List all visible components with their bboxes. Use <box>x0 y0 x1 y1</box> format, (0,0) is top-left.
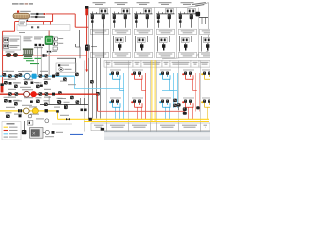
gauge label box 1 <box>104 61 112 68</box>
footer separator line <box>104 131 210 133</box>
connector pair p4 <box>58 91 62 95</box>
switch unit S2 (row2) <box>136 36 148 52</box>
wire cyan link b <box>162 90 177 92</box>
field connector f13 <box>57 100 61 104</box>
inline resistor on red drop <box>85 45 90 51</box>
flat box glyph b <box>37 26 39 28</box>
wire drop from power window motor module (front-left, cyan) <box>120 80 124 91</box>
cyan bus connector c <box>39 74 43 78</box>
bottom label box 4 <box>151 123 157 131</box>
power window motor module (front-left, cyan) <box>109 70 121 80</box>
wire cyan riser 3 <box>176 73 178 108</box>
label box row1 col2 <box>113 29 131 34</box>
door lock motor module (front-left, cyan) <box>109 98 121 108</box>
label box row1 col1 <box>91 29 109 34</box>
lower glyph a <box>19 115 22 118</box>
relay R2 label2 <box>9 47 17 48</box>
component glyph row <box>35 44 38 46</box>
yellow inline connector <box>66 118 70 120</box>
red bus connector a <box>8 92 12 96</box>
relay unit K1 (row1) <box>90 9 109 28</box>
red bus motor (circle) <box>24 91 30 97</box>
connector pair p2 <box>63 77 67 81</box>
diagram title text <box>12 3 19 4</box>
legend box <box>2 122 21 141</box>
connector pair p5 <box>70 96 74 100</box>
circuit title label 4 <box>159 2 172 5</box>
yellow corner connector <box>89 118 92 121</box>
mid component m3 <box>40 85 43 87</box>
wire pale-red riser 2 <box>198 73 200 112</box>
mid text 4 <box>13 100 22 101</box>
noise filter label <box>6 51 15 52</box>
field label f11 <box>44 99 50 102</box>
wire black drop d5 <box>99 58 101 119</box>
door key cylinder module (yellow) <box>201 98 213 108</box>
mid component m2 <box>31 82 34 84</box>
cyan bus label below 3 <box>44 79 51 80</box>
gauge label box 7 <box>191 61 199 68</box>
column divider upper 5 <box>198 8 200 59</box>
cyan bus label above 2 <box>22 71 32 72</box>
lower black connector <box>177 103 181 106</box>
wire yellow run 1 <box>58 118 210 120</box>
audio glyph 2 <box>52 131 55 134</box>
wire black L3 <box>79 30 81 47</box>
component list text e <box>24 40 32 41</box>
field label f8 <box>4 96 10 99</box>
yellow bus label above 2 <box>29 106 37 107</box>
corner module connector <box>196 106 200 109</box>
switch unit S4 (row2) <box>180 36 192 52</box>
stop feed unit (red, left edge) <box>1 86 4 93</box>
junction box JB2 <box>56 63 76 72</box>
wire black drop d1 <box>91 24 93 119</box>
gauge label box 8 <box>199 61 210 68</box>
cyan bus connector a <box>8 74 12 78</box>
red stub drop 1 <box>43 22 45 25</box>
relay R2 label <box>9 45 19 46</box>
yellow run label <box>60 115 69 116</box>
wire yellow run 2 <box>84 121 209 123</box>
field connector f12 <box>6 115 10 119</box>
door lock motor module (rear-left, cyan) <box>159 98 171 108</box>
wire red riser 1 <box>145 73 147 119</box>
cyan bus label above 1 <box>6 71 14 72</box>
flat box glyph a <box>31 26 33 28</box>
field label f5 <box>24 78 30 81</box>
control module M1 (green) <box>45 36 53 45</box>
wire black L1 <box>57 58 76 72</box>
field label f4 <box>14 81 20 84</box>
bottom label box 6 <box>179 123 201 131</box>
red bus label below 2 <box>24 97 33 98</box>
wire gray vertical g2 <box>40 47 42 75</box>
red stub drop 2 <box>50 22 52 25</box>
field label f7 <box>44 78 50 81</box>
wire drop from door lock motor module (front-right, red) <box>138 107 142 119</box>
wire drop from power window motor module (front-right, red) <box>142 80 146 91</box>
wire drop from door lock motor module (rear-left, cyan) <box>166 107 170 119</box>
JB2 text a <box>61 65 69 66</box>
field connector f4 <box>14 85 18 89</box>
gauge label box 4 <box>141 61 162 68</box>
wire drop from door key cylinder module (yellow) <box>208 107 212 119</box>
red bus label above 1 <box>8 89 16 90</box>
gauge label box 5 <box>162 61 170 68</box>
mid component m4 <box>9 100 12 103</box>
noise filter NF1 <box>6 53 10 56</box>
module M1 lead <box>48 45 50 75</box>
panel outline (upper grid) <box>89 3 209 59</box>
red bus connector b <box>15 92 19 96</box>
ground bus stub 1 <box>79 98 81 105</box>
power window motor module (rear-right, red) <box>182 70 194 80</box>
door lock motor module (front-right, red) <box>131 98 143 108</box>
relay unit K2 (row1) <box>112 9 131 28</box>
connector box C1 text <box>20 22 25 23</box>
scatter text t2 <box>68 84 76 85</box>
cyan bus motor (circle) <box>24 73 30 79</box>
wire red to left edge <box>3 30 15 32</box>
column divider upper 4 <box>176 8 178 59</box>
fuse label text 1 <box>40 13 45 14</box>
lower circle c <box>45 119 49 123</box>
relay box J/B <box>2 36 21 50</box>
field label f9 <box>14 99 20 102</box>
label box row1 col3 <box>135 29 153 34</box>
gray shelf line <box>52 123 72 125</box>
JB2 connector oval <box>59 68 63 71</box>
resistor label <box>91 46 97 47</box>
field label f3 <box>4 78 10 81</box>
connector pair blob1 <box>90 80 94 84</box>
component list text c <box>34 37 43 38</box>
bottom label box 3 <box>129 123 151 131</box>
label box row1 col5 <box>179 29 197 34</box>
wire yellow riser 2 <box>154 60 156 122</box>
connector pair p1 <box>56 73 60 77</box>
column divider lower 2 <box>106 61 108 132</box>
yellow bus connector a <box>18 109 20 112</box>
field label f2 <box>18 70 24 73</box>
column divider lower 5 <box>156 61 158 132</box>
ground distribution block (building icon) <box>23 48 33 57</box>
yellow bus label above <box>6 107 15 108</box>
power window motor module (rear-left, cyan) <box>159 70 171 80</box>
noise filter NF2 <box>13 53 17 56</box>
red bus label above 2 <box>22 89 33 90</box>
wire cyan link a <box>75 88 124 90</box>
component glyph text <box>34 47 43 48</box>
circuit title label 3 <box>137 2 150 5</box>
component list text d <box>34 38 41 39</box>
column divider upper 3 <box>154 8 156 59</box>
circuit title label corner <box>192 2 206 7</box>
fusible link row text 1 <box>31 13 40 14</box>
wire red drop left <box>14 22 16 32</box>
ground label text green 2 <box>35 58 42 59</box>
ground label text green 1 <box>24 58 33 59</box>
cyan riser connector stack <box>173 99 177 103</box>
yellow bus label below 2 <box>30 114 39 115</box>
label box row2 col1 <box>91 52 109 57</box>
field label f10 <box>36 96 42 99</box>
mid text 2 <box>20 87 31 88</box>
relay unit K3 (row1) <box>134 9 153 28</box>
cyan bus relay (azure square) <box>32 74 37 79</box>
gauge label box 2 <box>112 61 133 68</box>
wire drop from door lock module (yellow) <box>212 80 216 91</box>
wire drop from power window motor module (rear-right, red) <box>193 80 197 91</box>
relay R1 label <box>9 39 19 40</box>
red bus label above 3 <box>44 89 51 90</box>
wire red lower horizontal <box>98 110 185 112</box>
wire cyan riser 2 <box>173 73 175 108</box>
left connector column label <box>58 38 63 39</box>
field connector f9 <box>14 102 18 106</box>
red terminal dot <box>44 13 46 15</box>
cyan bus connector d <box>45 74 49 78</box>
bottom label box 2 <box>107 123 129 131</box>
wire black drop d2 <box>102 24 104 58</box>
column divider lower 7 <box>200 61 202 132</box>
ground bus glyph a <box>58 100 62 104</box>
yellow bus drop <box>57 111 59 119</box>
field connector f3 <box>4 81 8 85</box>
wire black drop d3 <box>87 58 89 119</box>
audio lower text <box>45 136 54 137</box>
relay unit K4 (row1) <box>156 9 175 28</box>
component list text b <box>24 38 31 39</box>
connector box C1 <box>19 19 26 26</box>
wire gray vertical g1 <box>36 47 38 75</box>
wire drop from door lock motor module (rear-right, red) <box>189 107 193 119</box>
bottom label box 7 <box>201 123 211 131</box>
wire red accessory bus pale <box>33 55 87 57</box>
module M1 lead label <box>52 51 57 52</box>
field label f6 <box>36 81 42 84</box>
field connector f2 <box>19 73 23 77</box>
field label f14 <box>64 101 70 104</box>
gauge label box 3 <box>133 61 141 68</box>
ground bus stub 2 <box>83 98 85 105</box>
wire red feed to panel <box>75 26 88 28</box>
door lock motor module (rear-right, red) <box>182 98 194 108</box>
ground label text green 3 <box>26 60 34 61</box>
yellow bus motor (circle) <box>23 108 29 114</box>
lower text row <box>36 118 44 119</box>
cyan bus connector e <box>52 75 55 78</box>
wire yellow riser 1 <box>151 60 153 122</box>
mid text 3 <box>34 82 39 83</box>
wire red feed horizontal <box>46 13 75 15</box>
red bus connector c <box>39 92 43 96</box>
column divider upper 2 <box>132 8 134 59</box>
red arrow terminal <box>85 70 88 73</box>
wire red branch vertical <box>52 14 54 22</box>
label box row2 col5 <box>179 52 197 57</box>
wire red left edge drop <box>2 31 4 84</box>
field connector f11 <box>44 103 48 107</box>
cyan bus label below 2 <box>24 79 33 80</box>
mid text 1 <box>13 82 21 83</box>
label box row2 col2 <box>113 52 131 57</box>
junction bowtie J1 <box>25 19 29 21</box>
to-stop-light text (blue) <box>70 134 83 135</box>
field label f1 <box>2 70 8 73</box>
connector pair blob2 <box>96 92 100 96</box>
wire red accessory bus <box>3 55 23 57</box>
switch unit S5 (row2) <box>202 36 214 52</box>
cyan bus connector b <box>15 74 19 78</box>
circuit title label 5 <box>181 2 194 5</box>
yellow path glyph pair <box>81 109 84 112</box>
red bus lamp (red circle) <box>30 91 36 97</box>
relay R1 label2 <box>9 40 17 41</box>
bottom label box tab <box>101 128 104 131</box>
JB2 glyph a <box>58 64 60 66</box>
wire black L2 <box>76 47 80 58</box>
wire black ground bus <box>40 104 88 106</box>
field label f13 <box>57 97 63 100</box>
label box row2 corner <box>199 52 217 57</box>
door lock module (yellow) <box>201 70 213 80</box>
wire cyan bus <box>0 75 75 77</box>
ground bus stub 3 <box>48 96 50 105</box>
audio glyph <box>22 130 27 134</box>
connector box C1 text2 <box>20 23 24 24</box>
ground bus text <box>54 107 60 108</box>
label box row1 corner <box>200 29 218 34</box>
connector pair p3 <box>75 73 79 77</box>
JB2 text b <box>65 69 72 70</box>
module M1 inline connector <box>47 51 51 53</box>
audio connector box <box>28 121 33 126</box>
relay unit K5 (row1) <box>178 9 197 28</box>
relay unit K6 (row1 corner) <box>196 12 201 17</box>
lower circle b <box>28 114 32 118</box>
ground bus glyph b <box>64 106 68 110</box>
audio wire 2 <box>43 131 45 133</box>
left connector column label2 <box>58 43 63 44</box>
field connector f14 <box>64 104 68 108</box>
fusible link FL2 <box>35 16 37 18</box>
accessory bus inline connector <box>43 54 45 57</box>
field connector f10 <box>36 100 40 104</box>
under-box text <box>19 32 25 33</box>
label box row1 col4 <box>157 29 175 34</box>
left connector column <box>53 37 57 41</box>
wire red panel drop <box>86 9 88 70</box>
wire black drop d4 <box>95 58 97 119</box>
yellow bus lamp (yellow circle) <box>32 108 38 114</box>
audio head unit <box>30 128 44 139</box>
mid component m5 <box>30 101 33 103</box>
circuit title label 1 <box>93 2 106 5</box>
yellow bus label below 1 <box>14 114 22 115</box>
note text <box>20 11 31 12</box>
column divider lower 6 <box>178 61 180 132</box>
wire red lower drop <box>97 94 99 111</box>
audio wire <box>24 121 26 130</box>
ignition feed lamp (red) <box>85 8 88 15</box>
wire black L4 <box>75 44 77 47</box>
audio text <box>56 132 63 133</box>
fuse label text 2 <box>39 16 46 17</box>
note marker (red) <box>17 11 19 13</box>
scatter text t1 <box>60 81 67 82</box>
red bus label below 3 <box>44 97 51 98</box>
switch unit S1 (row2) <box>114 36 126 52</box>
scatter text t3 <box>58 98 66 99</box>
red bus label below 1 <box>8 97 16 98</box>
flat junction box <box>17 25 70 31</box>
ground label text green 4 <box>30 63 39 64</box>
wire red feed corner vertical <box>74 14 76 27</box>
wire cyan riser 1 <box>123 73 125 119</box>
bottom label box 1 <box>91 123 107 131</box>
wire yellow bus <box>0 110 58 112</box>
relay R1 <box>4 38 9 42</box>
footer gray band <box>104 132 210 140</box>
component list text a <box>24 37 33 38</box>
switch unit S3 (row2) <box>158 36 170 52</box>
wire red bus <box>0 93 98 95</box>
wire red main horizontal <box>15 21 53 23</box>
gauge label box 6 <box>170 61 191 68</box>
battery cable harness B1 <box>13 13 30 18</box>
fusible link FL1 <box>36 13 38 15</box>
bottom label box 5 <box>157 123 179 131</box>
wire cyan bus corner <box>74 76 76 88</box>
column divider upper 1 <box>110 8 112 59</box>
cyan bus label below 1 <box>8 79 16 80</box>
cyan bus label above 3 <box>40 71 48 72</box>
ground bus glyph c <box>76 100 80 104</box>
red stub to module <box>48 31 50 37</box>
mid component m1 <box>9 82 12 85</box>
yellow bus connector b <box>45 109 48 112</box>
label box row2 col4 <box>157 52 175 57</box>
circuit title label 2 <box>115 2 128 5</box>
label box row2 col3 <box>135 52 153 57</box>
column divider lower 4 <box>150 61 152 132</box>
power window motor module (front-right, red) <box>131 70 143 80</box>
field connector f5 <box>24 81 28 85</box>
relay R2 <box>4 44 9 48</box>
red bus connector d <box>45 92 49 96</box>
mid text 5 <box>22 105 32 106</box>
yellow path glyph a <box>56 110 59 112</box>
column divider lower 3 <box>128 61 130 132</box>
fusible link row text 2 <box>31 16 39 17</box>
audio speaker circle <box>45 130 49 134</box>
field label f12 <box>6 111 12 114</box>
wire pale-red riser 1 <box>195 73 197 112</box>
field connector f8 <box>4 99 8 103</box>
field connector f1 <box>3 73 7 77</box>
red bus connector e <box>52 93 55 96</box>
rear junction connector <box>183 107 187 111</box>
column divider lower 1 <box>84 61 86 132</box>
field connector f7 <box>44 81 48 85</box>
field connector f6 <box>36 85 40 89</box>
wire drop from door lock motor module (front-left, cyan) <box>116 107 120 119</box>
wire drop from power window motor module (rear-left, cyan) <box>170 80 174 91</box>
